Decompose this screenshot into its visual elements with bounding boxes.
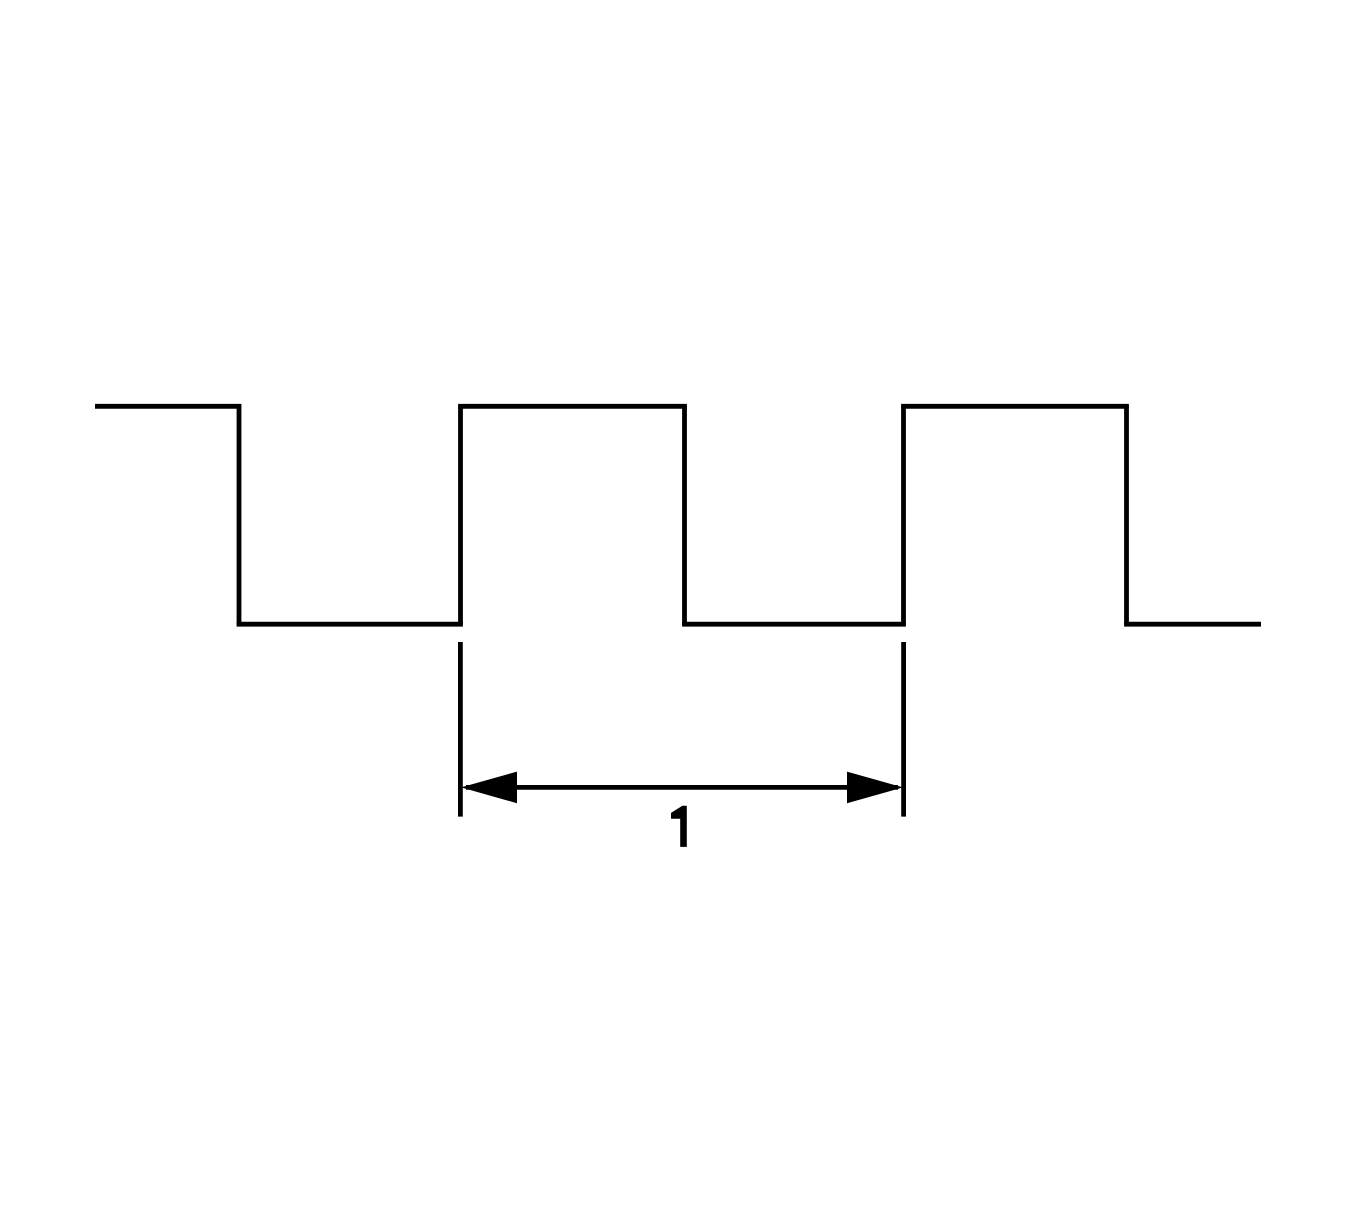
dimension arrow shaft [466, 785, 898, 790]
wire: top segment 2 [458, 404, 687, 409]
wire: top segment 1 of square wave [95, 404, 241, 409]
wire: rising edge 2 [901, 406, 906, 624]
wire: falling edge 3 [1124, 406, 1129, 624]
dimension arrowhead left [461, 772, 517, 804]
wire: bottom segment 1 [237, 622, 463, 627]
dimension extension line left [458, 642, 463, 817]
wire: bottom segment 2 [682, 622, 906, 627]
label 1 (one period) [671, 806, 687, 847]
wire: top segment 3 [901, 404, 1129, 409]
wire: falling edge 1 [237, 406, 242, 624]
wire: bottom segment 3 [1124, 622, 1261, 627]
dimension arrowhead right [847, 772, 903, 804]
wire: falling edge 2 [682, 406, 687, 624]
dimension extension line right [901, 642, 906, 817]
wire: rising edge 1 [458, 406, 463, 624]
